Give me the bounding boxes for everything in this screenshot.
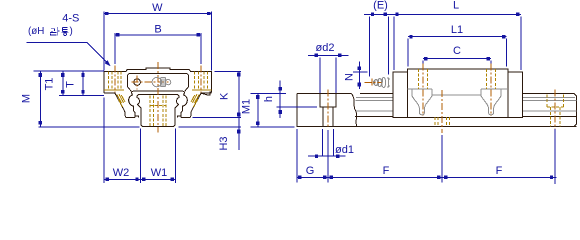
dimension N	[344, 62, 368, 90]
svg-text:): )	[70, 26, 73, 37]
dimension T	[59, 71, 104, 95]
rail side view outline	[297, 94, 577, 127]
svg-text:W: W	[152, 2, 163, 14]
svg-text:T: T	[65, 81, 77, 88]
grease nipple body circle	[152, 77, 161, 86]
block inner cavity top line	[132, 91, 185, 95]
block bolt hidden lines left	[418, 69, 427, 89]
rail hole1 centerline	[327, 89, 329, 128]
dimension K	[193, 71, 242, 150]
grease nipple collar detail	[162, 79, 164, 86]
dimension L	[394, 0, 521, 70]
label 4-S (oH through) leader	[26, 12, 110, 66]
block bolt centerline right	[490, 64, 492, 117]
dimension (E)	[364, 0, 394, 77]
dimension od1	[308, 129, 354, 158]
svg-text:F: F	[383, 165, 390, 177]
dimension h	[263, 81, 317, 119]
dimension H3	[179, 127, 242, 151]
flange hatch right	[191, 94, 199, 107]
dimension M	[21, 71, 140, 127]
svg-text:4-S: 4-S	[62, 12, 79, 24]
svg-text:C: C	[453, 45, 461, 57]
grease nipple hatch marks	[375, 78, 383, 87]
LM block cross-section outer outline	[104, 68, 212, 95]
frame chamfer left	[128, 87, 132, 91]
rail vertical centerline	[157, 62, 159, 133]
rail bolt hidden counterbore lines	[150, 95, 166, 126]
svg-text:(øH: (øH	[28, 26, 44, 37]
rail hole2 centerline	[441, 90, 443, 133]
rail counterbore section left	[320, 94, 336, 127]
dimension W	[104, 2, 212, 70]
hangul gwan	[50, 27, 68, 35]
block cavity groove right	[177, 95, 187, 118]
svg-text:(E): (E)	[373, 0, 388, 12]
rail section break line	[352, 94, 357, 127]
flange bolt hidden lines right	[195, 72, 208, 91]
svg-text:K: K	[218, 92, 230, 100]
block bolt centerline left	[422, 64, 424, 117]
hole cross centerline horizontal	[132, 81, 171, 83]
rail hole3 centerline	[554, 89, 556, 133]
dimension G F F baseline	[297, 129, 557, 184]
svg-text:B: B	[154, 24, 161, 36]
dimension W2 W1	[104, 98, 175, 184]
grease nipple head circle	[165, 79, 170, 84]
dimension T1	[44, 71, 65, 95]
block outer side + bottom right	[181, 93, 208, 118]
svg-text:F: F	[496, 165, 503, 177]
flange bolt centerline left	[114, 66, 116, 93]
dimension M1	[241, 94, 295, 127]
block cavity groove left	[129, 95, 139, 118]
flange bolt centerline right	[200, 66, 202, 93]
hangul tong	[62, 27, 69, 32]
grease nipple side view rings	[373, 78, 390, 88]
svg-text:H3: H3	[218, 136, 230, 150]
rail cross-section profile	[137, 95, 179, 127]
svg-text:h: h	[263, 96, 275, 102]
end plate inner frame	[128, 74, 189, 87]
rail lower edge line left of block	[355, 115, 393, 117]
dimension L1	[408, 24, 507, 67]
flange hatch left	[117, 94, 125, 107]
block mounting hole circle	[134, 79, 141, 86]
ball tulip left	[408, 89, 432, 115]
dimension B	[115, 24, 201, 65]
ball tulip right	[481, 89, 508, 115]
rail top line visible inside block cutaway	[432, 94, 482, 96]
rail hole2 hidden lines under block	[435, 117, 450, 126]
flange seal gold line right	[192, 89, 212, 91]
rail lower edge line right of block	[523, 115, 577, 117]
svg-text:W1: W1	[151, 167, 168, 179]
svg-text:ød1: ød1	[335, 144, 354, 156]
block bolt hidden lines right	[486, 69, 495, 89]
block end plate inner edges	[408, 72, 508, 118]
grease nipple collar	[160, 78, 165, 87]
dimension C	[423, 45, 491, 64]
svg-text:M: M	[21, 94, 33, 103]
svg-text:M1: M1	[241, 99, 253, 114]
rail groove lines left of block	[355, 98, 393, 111]
flange underside right short	[201, 92, 212, 94]
svg-text:L: L	[453, 0, 459, 12]
dimension od2	[308, 42, 349, 93]
hole cross centerline vertical	[136, 75, 138, 89]
flange bolt hidden lines left	[108, 72, 121, 91]
rail hole3 hidden lines	[547, 95, 563, 127]
svg-text:L1: L1	[451, 24, 463, 36]
block side view outline	[393, 69, 523, 118]
svg-text:T1: T1	[44, 78, 56, 91]
flange seal gold line left	[104, 89, 124, 91]
svg-text:W2: W2	[113, 167, 130, 179]
svg-text:N: N	[344, 73, 356, 81]
frame chamfer right	[185, 87, 189, 91]
svg-text:ød2: ød2	[316, 42, 335, 54]
grease nipple tip tick	[371, 79, 373, 87]
rail groove lines right of block	[523, 98, 577, 111]
grease nipple centerline	[365, 82, 382, 84]
block outer side + bottom left	[104, 93, 135, 118]
svg-text:G: G	[306, 165, 315, 177]
